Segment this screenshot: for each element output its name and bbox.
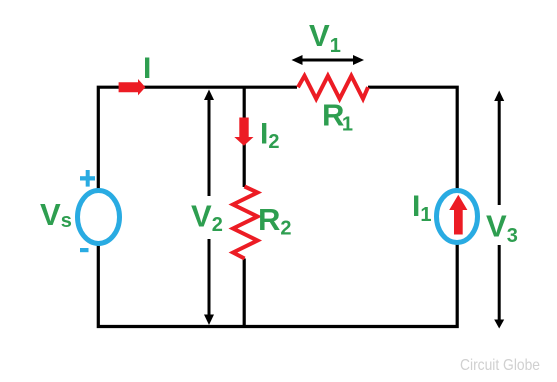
- svg-text:V1: V1: [309, 18, 341, 57]
- voltage source plus sign: [80, 170, 95, 187]
- wire middle branch bottom segment: [243, 259, 246, 327]
- voltage source Vs circle: [78, 191, 120, 244]
- current I block arrow on top wire: [119, 79, 146, 95]
- wire main loop (top-left, left, bottom, right, top-right segments): [98, 87, 457, 326]
- node V1 measurement arrow (double-headed): [292, 55, 365, 65]
- svg-text:I: I: [143, 52, 151, 85]
- node V3 measurement arrow (double-headed, gap for label): [494, 91, 504, 329]
- svg-text:I1: I1: [412, 190, 431, 226]
- current source I1 circle: [437, 191, 478, 243]
- svg-text:Circuit Globe: Circuit Globe: [460, 357, 540, 374]
- node V2 measurement arrow (double-headed, gap for label): [204, 90, 214, 326]
- svg-text:Vs: Vs: [40, 197, 72, 232]
- svg-text:V3: V3: [486, 209, 518, 248]
- svg-text:R1: R1: [322, 98, 353, 136]
- wire middle branch top segment: [243, 87, 246, 187]
- svg-text:R2: R2: [258, 202, 292, 240]
- voltage source minus sign: [80, 248, 89, 252]
- svg-text:V2: V2: [191, 199, 223, 237]
- resistor R2 zigzag: [233, 187, 258, 259]
- svg-text:I2: I2: [260, 118, 279, 154]
- resistor R1 zigzag: [298, 76, 368, 99]
- current source I1 internal up arrow: [449, 195, 467, 235]
- current I2 block arrow on middle branch: [234, 118, 253, 146]
